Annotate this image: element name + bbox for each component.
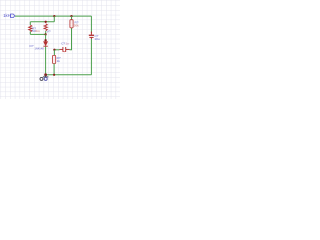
port IN (input label, blue): [3, 13, 15, 18]
svg-text:1k: 1k: [57, 59, 61, 63]
ground symbol: [40, 75, 48, 81]
diode D1 (pointing down): [43, 39, 47, 46]
svg-text:D?: D?: [30, 44, 34, 48]
wire (30.3,31.8)-(30.3,34.4): [29, 32, 31, 35]
wire (45.6,34.4)-(45.6,40): [45, 34, 47, 40]
svg-text:50k: 50k: [74, 24, 79, 28]
node junction (45.7,21.8): [45, 21, 47, 23]
capacitor C1 (series, horizontal): [60, 47, 70, 52]
svg-text:1u: 1u: [65, 42, 69, 46]
wire y49.8 horizontal (54.4,49.8)-(59.5,49.8): [54, 49, 59, 51]
capacitor C2 (polarized, on x91.4 wire): [89, 32, 94, 40]
wire y21.8 horizontal: [30, 21, 54, 23]
svg-text:10u: 10u: [94, 37, 99, 41]
wire (69.5,49.8)-(71.5,49.8)-(71.5,27.9): [70, 28, 72, 50]
wire bottom y74.8: [46, 74, 92, 76]
node junction (54.1,74.8): [53, 74, 55, 76]
wire x91.4 lower: [90, 39, 92, 75]
wire (45.7,31)-(45.7,34.4): [45, 31, 47, 34]
node junction (71.5,16): [70, 15, 72, 17]
resistor R4 (bottom middle, box at x54.1): [53, 50, 56, 75]
node junction (54.3,16): [53, 15, 55, 17]
svg-text:500m: 500m: [32, 29, 40, 33]
wire right vertical x91.4 upper: [90, 16, 92, 33]
svg-text:V?: V?: [47, 29, 51, 33]
wire y34.4 horizontal: [30, 33, 45, 35]
resistor R3 (top, box style at x71.5): [70, 16, 73, 28]
wire left vertical x30.3 upper: [29, 22, 31, 25]
wire stub (54.3,16)-(54.3,21.8): [53, 16, 55, 22]
node junction (45.6,34.4): [44, 33, 46, 35]
node junction (54.4,49.8): [53, 49, 55, 51]
node junction (45.6,74.8): [44, 74, 47, 77]
wire (45.6,46.6)-(45.6,74.8): [45, 47, 47, 75]
svg-text:1N4148: 1N4148: [35, 47, 45, 51]
resistor R1 (zigzag, left branch x30.3): [29, 25, 32, 32]
resistor R2 (zigzag, x45.7): [44, 24, 47, 31]
wire top horizontal y16: [15, 15, 91, 17]
